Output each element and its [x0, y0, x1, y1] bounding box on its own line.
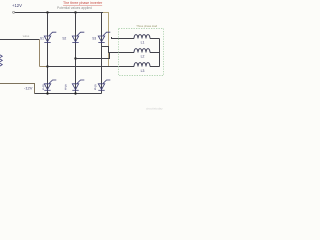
svg-text:The three phase inverter: The three phase inverter [63, 1, 103, 5]
node +12V terminal [13, 11, 15, 13]
thyristor S4 [44, 80, 56, 90]
inductor L1 [134, 35, 150, 39]
wire -12V input [0, 84, 35, 94]
wire leg3 midpoint to L2 [102, 47, 135, 53]
thyristor S5 [72, 80, 84, 90]
wire L1 right [150, 38, 160, 40]
svg-text:L3: L3 [141, 69, 145, 73]
node junction top bus / leg 2 [74, 11, 76, 13]
svg-text:S1: S1 [40, 37, 44, 41]
wire to leg1 midpoint [40, 66, 48, 68]
wire left vertical drop [39, 40, 41, 67]
svg-text:L1: L1 [141, 40, 145, 44]
svg-text:circuitstoday: circuitstoday [146, 106, 163, 110]
svg-text:5: 5 [65, 87, 67, 91]
thyristor S3 [98, 32, 110, 42]
load box green dashed [119, 29, 164, 76]
node junction bottom bus leg1 [46, 92, 48, 94]
svg-text:-12V: -12V [24, 85, 33, 90]
wire L2 right [150, 52, 160, 54]
inductor L2 [134, 49, 150, 53]
svg-text:6: 6 [94, 87, 96, 91]
wire leg 1 vertical [47, 13, 49, 94]
wire leg2 midpoint stub [76, 53, 110, 59]
node junction bottom bus leg2 [74, 92, 76, 94]
thyristor S2 [72, 32, 84, 42]
wire L3 right [150, 66, 160, 68]
svg-text:Potential values applied: Potential values applied [57, 6, 92, 10]
wire left input [0, 39, 40, 41]
wire top +12V bus [15, 12, 103, 14]
svg-text:L2: L2 [141, 55, 145, 59]
thyristor S1 [44, 32, 56, 42]
svg-text:+12V: +12V [12, 3, 22, 8]
node junction leg2 midpoint [74, 57, 76, 59]
wire into L1 [112, 37, 135, 39]
node junction top bus / leg 1 [46, 11, 48, 13]
wire leg1 midpoint to L3 [48, 66, 135, 68]
wire tan bus corner down [103, 13, 109, 67]
svg-text:Three phase load: Three phase load [136, 24, 157, 28]
svg-text:4: 4 [42, 87, 44, 91]
svg-text:S3: S3 [92, 37, 96, 41]
wire bottom bus [35, 93, 102, 95]
thyristor S6 [98, 80, 110, 90]
wire leg 3 vertical [101, 13, 103, 94]
wire leg 2 vertical [75, 13, 77, 94]
wire neutral vertical [159, 39, 161, 67]
resistor R1 (cut off at left edge) [0, 54, 2, 66]
node junction leg1 midpoint [46, 65, 48, 67]
svg-text:wires: wires [23, 34, 30, 38]
inductor L3 [134, 63, 150, 67]
svg-text:S2: S2 [62, 37, 66, 41]
